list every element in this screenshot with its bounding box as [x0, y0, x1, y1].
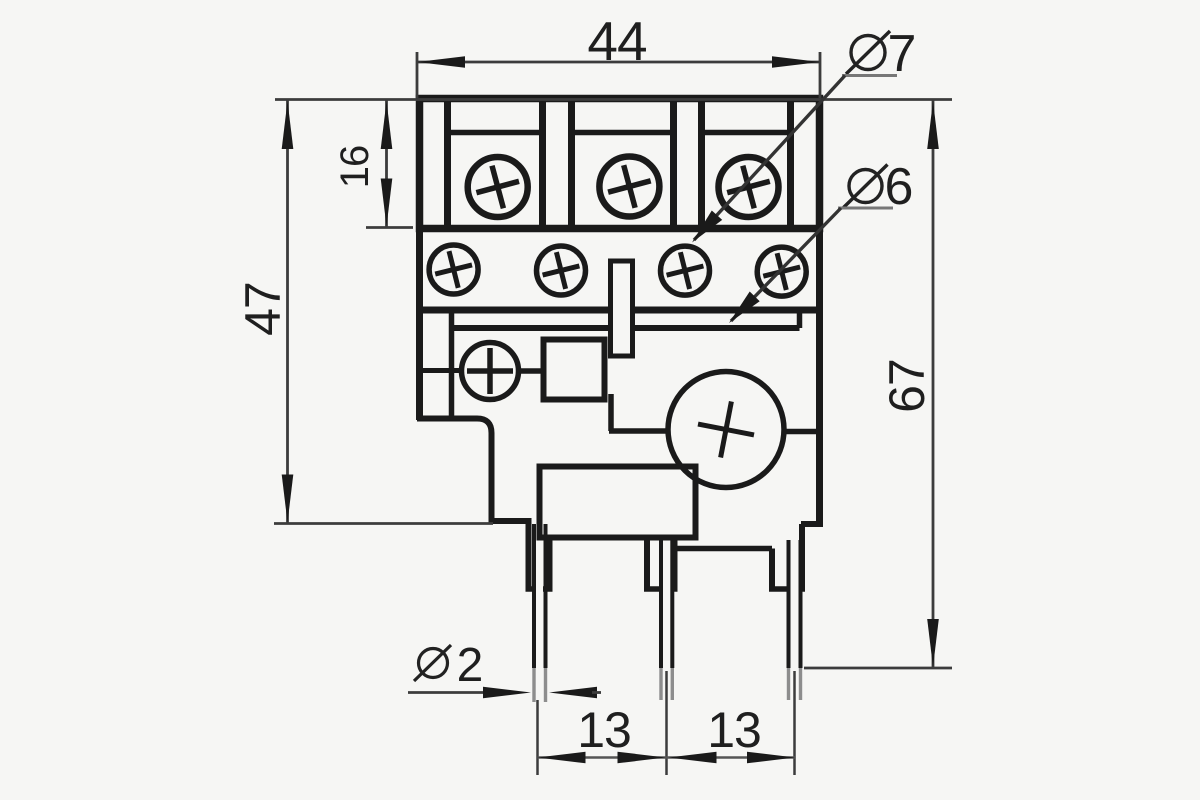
step from square to dial	[609, 394, 668, 431]
pin 3 lead	[789, 540, 801, 700]
body: row2 box	[420, 229, 820, 311]
svg-text:44: 44	[587, 10, 646, 72]
pin 1 wide part	[526, 518, 553, 589]
dim dia2	[408, 639, 601, 698]
svg-text:47: 47	[235, 282, 291, 336]
top extension line	[275, 98, 952, 101]
pin extension lines	[538, 671, 795, 775]
svg-text:2: 2	[457, 639, 484, 692]
connector line to adjust screw	[421, 368, 462, 373]
adjust screw	[462, 343, 519, 400]
dial circle	[668, 372, 784, 488]
dim 47	[235, 100, 493, 524]
pin 1 lead	[534, 524, 546, 702]
svg-text:13: 13	[707, 702, 761, 758]
dim 44	[417, 10, 820, 98]
dim 67	[804, 100, 952, 668]
svg-text:67: 67	[879, 359, 935, 413]
row1 bay inner top edges	[448, 130, 791, 136]
component body: row1 terminal box	[420, 99, 820, 229]
screw row1 #2	[599, 157, 659, 217]
square block	[544, 340, 605, 400]
screw row1 #3	[719, 157, 779, 217]
screw row2 #2	[537, 246, 586, 295]
screw row2 #4	[757, 247, 806, 296]
dim 13 second	[669, 702, 796, 763]
svg-text:16: 16	[333, 146, 377, 189]
pin 3 wide part	[769, 549, 805, 590]
label dia7 with leader	[692, 25, 916, 243]
dial to right edge	[784, 429, 820, 435]
label plate rectangle	[540, 467, 696, 538]
label dia6 with leader	[729, 158, 913, 323]
inner shelf line under row2	[452, 310, 800, 328]
body right edge	[801, 310, 823, 591]
row1 divider lines	[448, 99, 791, 229]
left inner wall	[449, 310, 455, 418]
pin 2 wide part	[644, 538, 678, 590]
body left lower profile with step	[417, 310, 531, 521]
svg-text:13: 13	[577, 702, 631, 758]
dim 16	[333, 100, 413, 228]
bottom edge between pin2 and pin3	[675, 546, 773, 552]
link screw to square	[518, 368, 545, 374]
dim 13 first	[538, 702, 796, 763]
screw row2 #1	[429, 245, 478, 294]
screw row1 #1	[468, 157, 528, 217]
screw row2 #3	[661, 246, 710, 295]
center slot	[611, 261, 633, 356]
pin 2 lead	[661, 540, 672, 700]
